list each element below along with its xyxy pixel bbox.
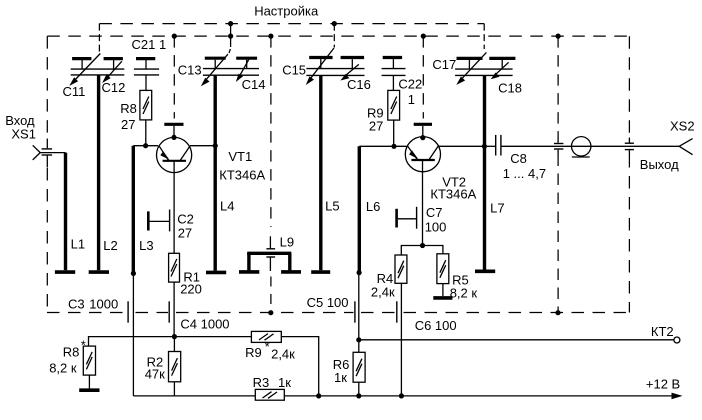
svg-text:XS1: XS1 — [11, 127, 36, 142]
svg-text:+12 В: +12 В — [646, 377, 680, 392]
C14 arrow — [236, 58, 250, 82]
divider wall 2 (L9) — [266, 34, 275, 316]
upper bias rail — [89, 334, 319, 395]
capacitor C12 — [104, 59, 123, 69]
svg-text:R3: R3 — [253, 375, 270, 390]
svg-text:27: 27 — [178, 225, 192, 240]
tuning drop to C17 — [483, 24, 485, 49]
C17/C18 common plates — [455, 69, 512, 75]
connector XS1 pin — [33, 145, 41, 160]
capacitor C11 — [72, 59, 91, 69]
svg-text:8,2 к: 8,2 к — [450, 286, 478, 301]
VT2 emitter wire — [359, 144, 407, 149]
resistor R4 — [395, 255, 407, 283]
capacitor C2 — [148, 210, 169, 232]
resistor R5 — [437, 254, 449, 296]
svg-text:L3: L3 — [139, 238, 153, 253]
svg-text:C12: C12 — [102, 80, 126, 95]
resistor R6 — [353, 340, 365, 396]
svg-text:2,4к: 2,4к — [271, 347, 295, 362]
VT1 collector wire — [190, 143, 218, 148]
+12V arrow — [672, 393, 683, 400]
svg-text:*: * — [265, 339, 270, 354]
svg-text:C2: C2 — [177, 212, 194, 227]
svg-text:L4: L4 — [220, 198, 234, 213]
trimmer C21 — [134, 59, 159, 91]
svg-text:C16: C16 — [347, 77, 371, 92]
svg-text:L7: L7 — [490, 200, 504, 215]
input wire — [40, 152, 66, 154]
C17 arrow — [456, 52, 486, 85]
VT2 base wire — [422, 160, 424, 245]
capacitor C8 — [485, 135, 554, 156]
shield box left edge — [46, 36, 48, 312]
svg-text:8,2 к: 8,2 к — [49, 360, 77, 375]
inductor L4 — [206, 75, 226, 272]
feedthrough capacitor C6 — [397, 283, 402, 395]
divider wall 1 (VT1) — [172, 34, 177, 119]
transistor VT1 — [157, 124, 192, 172]
svg-text:C18: C18 — [498, 80, 522, 95]
inductor L3 — [131, 146, 136, 276]
C11 arrow — [69, 54, 100, 86]
svg-text:C14: C14 — [242, 77, 266, 92]
svg-text:27: 27 — [369, 118, 383, 133]
capacitor C18 — [489, 58, 515, 69]
tuning drop to C11 — [98, 24, 100, 52]
divider wall 3 (VT2) — [421, 34, 426, 119]
transistor VT2 — [405, 124, 440, 171]
resistor R2 — [169, 337, 181, 396]
resistor R9* (horizontal) — [251, 331, 281, 342]
svg-text:R8: R8 — [120, 101, 137, 116]
divider wall 4 (output) — [555, 34, 560, 316]
svg-text:КТ2: КТ2 — [651, 324, 674, 339]
svg-text:47к: 47к — [145, 366, 165, 381]
svg-text:C13: C13 — [178, 62, 202, 77]
svg-text:L9: L9 — [280, 235, 294, 250]
C15 arrow — [306, 48, 334, 85]
svg-text:27: 27 — [121, 117, 135, 132]
coupling loop L9 — [239, 253, 301, 272]
capacitor C14 — [236, 58, 257, 68]
svg-text:L2: L2 — [103, 238, 117, 253]
svg-text:L5: L5 — [325, 199, 339, 214]
connector XS2 socket — [679, 139, 692, 155]
C15/C16 common plates — [306, 69, 364, 76]
VT1 emitter wire — [133, 143, 158, 148]
svg-text:L1: L1 — [71, 237, 85, 252]
inductor L6 — [357, 146, 362, 275]
svg-text:C8: C8 — [510, 151, 527, 166]
feedthrough at right edge — [625, 138, 634, 156]
C18 arrow — [491, 62, 509, 79]
svg-text:C7: C7 — [426, 205, 443, 220]
svg-text:C3: C3 — [68, 297, 85, 312]
svg-text:Настройка: Настройка — [254, 4, 319, 19]
svg-text:Выход: Выход — [640, 157, 679, 172]
feedthrough capacitor C1 (input) — [42, 139, 53, 168]
svg-text:C6 100: C6 100 — [415, 318, 457, 333]
svg-text:220: 220 — [180, 281, 202, 296]
svg-text:VT1: VT1 — [228, 149, 252, 164]
coaxial feedthrough insulator — [572, 137, 591, 157]
svg-text:1 ... 4,7: 1 ... 4,7 — [503, 166, 546, 181]
svg-text:1к: 1к — [334, 370, 347, 385]
svg-text:*: * — [81, 338, 86, 353]
tuning drop to C13 — [228, 21, 233, 53]
R4/R5 bridge — [401, 243, 443, 255]
resistor R1 — [169, 253, 180, 336]
capacitor C16 — [341, 58, 365, 69]
capacitor C15 — [309, 58, 332, 69]
inductor L7 — [475, 75, 495, 271]
shield box top edge — [47, 35, 629, 37]
svg-text:100: 100 — [425, 219, 447, 234]
trimmer C22 — [382, 58, 406, 91]
inductor L1 — [55, 153, 75, 273]
svg-text:L6: L6 — [366, 199, 380, 214]
C13/C14 common plates — [203, 69, 259, 76]
svg-text:КТ346А: КТ346А — [430, 187, 476, 202]
ground R5 — [433, 296, 452, 300]
svg-text:C15: C15 — [282, 62, 306, 77]
svg-text:XS2: XS2 — [670, 119, 695, 134]
svg-text:R9: R9 — [245, 345, 262, 360]
resistor R9 — [388, 90, 400, 145]
VT1 base wire — [173, 161, 175, 253]
output wire — [591, 145, 679, 147]
feedthrough capacitor C3 — [128, 273, 133, 396]
C11/C12 common plates — [71, 69, 125, 75]
inductor L5 — [311, 75, 330, 272]
capacitor C13 — [205, 58, 226, 68]
resistor R8 — [140, 90, 152, 144]
VT2 collector wire — [439, 144, 487, 149]
shield box bottom edge — [47, 312, 629, 314]
ground R8* — [79, 388, 99, 392]
inductor L2 — [89, 75, 109, 272]
KT2 test wire — [356, 337, 680, 343]
tuning gang dashed line — [99, 23, 484, 25]
resistor R8* — [83, 346, 95, 388]
svg-text:C22: C22 — [398, 77, 422, 92]
svg-text:C4 1000: C4 1000 — [180, 316, 229, 331]
svg-text:КТ346А: КТ346А — [219, 168, 265, 183]
svg-text:2,4к: 2,4к — [371, 285, 395, 300]
resistor R3 (horizontal) — [255, 389, 284, 400]
C13 arrow — [201, 54, 228, 86]
svg-text:C11: C11 — [63, 84, 86, 99]
svg-text:1: 1 — [408, 92, 415, 107]
lower supply rail — [133, 393, 680, 398]
tuning drop to C15 — [332, 21, 337, 48]
svg-text:C17: C17 — [432, 57, 456, 72]
svg-text:C21 1: C21 1 — [132, 37, 167, 52]
capacitor C7 — [397, 207, 417, 229]
capacitor C17 — [457, 58, 483, 69]
feedthrough capacitor C4 — [168, 301, 170, 322]
svg-text:R8: R8 — [63, 345, 80, 360]
C16 arrow — [340, 64, 358, 80]
svg-text:1000: 1000 — [89, 297, 118, 312]
feedthrough at wall 4 — [553, 138, 572, 155]
shield box right edge — [628, 36, 630, 312]
C12 arrow — [102, 61, 122, 83]
feedthrough capacitor C5 — [355, 273, 359, 340]
svg-text:C5 100: C5 100 — [307, 295, 349, 310]
svg-text:1к: 1к — [278, 375, 291, 390]
